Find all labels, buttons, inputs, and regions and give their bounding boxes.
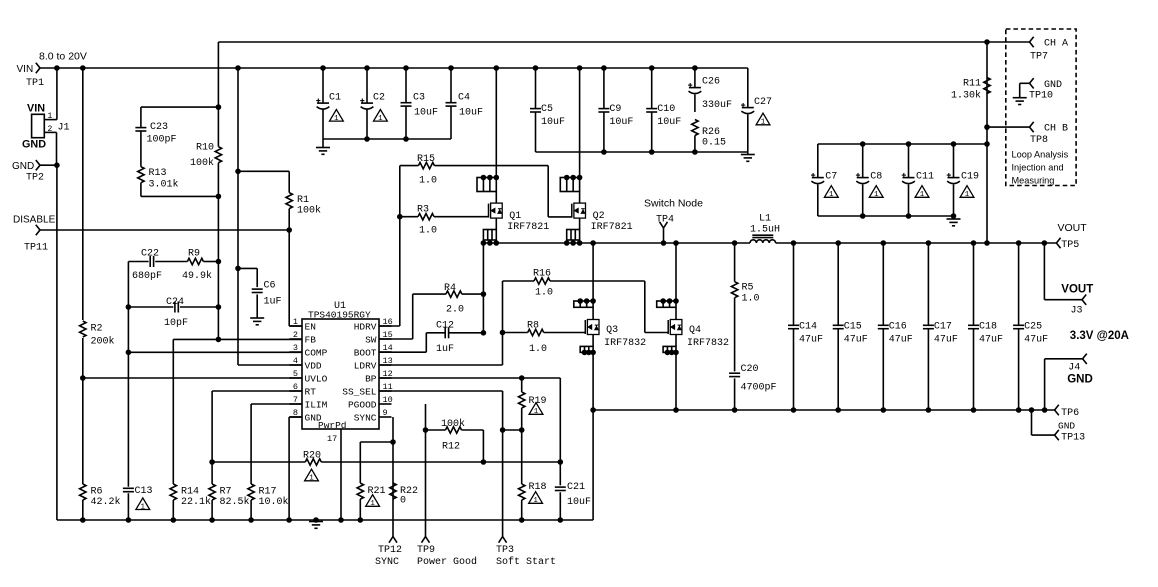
svg-text:100k: 100k	[297, 205, 321, 217]
svg-text:47uF: 47uF	[889, 335, 913, 346]
node VOUT connector J3	[1043, 243, 1045, 300]
wire EN pin 1	[288, 230, 290, 326]
svg-text:0.15: 0.15	[702, 138, 726, 149]
capacitor C16 47uF	[881, 240, 887, 246]
wire R15 to Q2 gate	[547, 166, 549, 217]
junction VIN bus at R2 column	[80, 65, 86, 71]
svg-text:IRF7821: IRF7821	[507, 222, 549, 233]
resistor R8 1.0 (Q3 gate)	[503, 332, 528, 334]
capacitor C3 10uF	[403, 65, 409, 71]
svg-text:PGOOD: PGOOD	[348, 400, 377, 411]
svg-text:R11: R11	[963, 79, 981, 90]
svg-text:Injection and: Injection and	[1012, 163, 1064, 173]
wire R10 bottom to FB node	[217, 196, 219, 339]
wire J1 pin2 to ground rail	[56, 132, 58, 165]
svg-text:1: 1	[370, 500, 375, 508]
svg-text:1: 1	[378, 115, 383, 123]
wire VOUT sense riser	[986, 42, 988, 243]
wire BOOT pin 14	[379, 351, 426, 353]
svg-text:1: 1	[334, 115, 339, 123]
svg-text:TPS40195RGY: TPS40195RGY	[308, 310, 371, 321]
resistor R20 (optional)	[212, 461, 305, 463]
svg-text:Q2: Q2	[593, 211, 605, 222]
node VIN test point TP1	[36, 63, 40, 68]
svg-text:PwrPd: PwrPd	[318, 420, 347, 431]
svg-text:TP1: TP1	[26, 78, 44, 89]
pin 12 BP	[379, 377, 392, 379]
inductor L1 1.5uH	[750, 240, 776, 243]
junction VIN bus at VDD column	[235, 65, 241, 71]
svg-text:TP5: TP5	[1061, 240, 1079, 251]
svg-text:C26: C26	[702, 77, 720, 88]
wire comp loop left leg	[127, 262, 129, 308]
svg-text:DISABLE: DISABLE	[13, 215, 56, 226]
svg-text:R7: R7	[220, 486, 232, 497]
wire analog ground bus	[57, 519, 593, 521]
svg-text:4: 4	[293, 356, 298, 366]
wire SYNC pin 9	[392, 417, 394, 537]
pin 1 EN	[289, 325, 302, 327]
ground below C19	[951, 213, 957, 219]
junction R21 tap	[390, 439, 396, 445]
svg-text:C20: C20	[741, 364, 759, 375]
svg-text:9: 9	[383, 408, 388, 418]
svg-text:C6: C6	[264, 281, 276, 292]
svg-text:47uF: 47uF	[1024, 335, 1048, 346]
svg-text:1: 1	[48, 112, 53, 121]
svg-text:5: 5	[293, 369, 298, 379]
wire riser switch node to R4/C12	[482, 243, 484, 333]
capacitor C22 680pF	[128, 261, 148, 263]
resistor R15 1.0 (Q2 gate)	[400, 165, 419, 167]
wire feedback sense column from loop line	[217, 42, 219, 107]
node GND test point TP2	[36, 160, 40, 165]
svg-text:GND: GND	[1044, 80, 1062, 91]
transistor Q3 IRF7832	[590, 240, 596, 246]
svg-text:C15: C15	[844, 322, 862, 333]
svg-text:1.0: 1.0	[742, 294, 760, 305]
svg-text:SS_SEL: SS_SEL	[342, 387, 377, 398]
svg-text:Power Good: Power Good	[417, 556, 477, 568]
capacitor C7 (polarized)	[817, 144, 819, 178]
svg-text:BOOT: BOOT	[354, 348, 377, 359]
svg-text:IRF7821: IRF7821	[591, 222, 633, 233]
wire UVLO sense	[83, 377, 302, 379]
pin 7 ILIM	[289, 403, 302, 405]
svg-text:3.3V @20A: 3.3V @20A	[1070, 330, 1129, 342]
svg-text:200k: 200k	[91, 336, 115, 348]
svg-text:100pF: 100pF	[147, 135, 177, 146]
junction R3 tap on HDRV column	[397, 214, 403, 220]
svg-text:16: 16	[383, 317, 393, 327]
svg-text:C9: C9	[609, 104, 621, 115]
wire COMP node column	[127, 307, 129, 352]
node Power Good test point TP9	[422, 537, 426, 543]
svg-text:Loop Analysis: Loop Analysis	[1012, 150, 1069, 160]
svg-text:C4: C4	[458, 92, 470, 103]
svg-text:22.1k: 22.1k	[181, 496, 211, 508]
svg-text:TP3: TP3	[496, 545, 514, 556]
svg-text:0: 0	[400, 496, 406, 507]
svg-text:Switch Node: Switch Node	[644, 198, 703, 210]
svg-text:3: 3	[293, 343, 298, 353]
ground below C6	[250, 317, 264, 319]
svg-text:1: 1	[874, 191, 879, 199]
svg-text:R26: R26	[702, 127, 720, 138]
svg-text:1.0: 1.0	[419, 176, 437, 187]
svg-text:R8: R8	[527, 320, 539, 331]
svg-text:10uF: 10uF	[541, 117, 565, 128]
svg-text:14: 14	[383, 343, 393, 353]
junction RT node at R20	[209, 459, 215, 465]
svg-text:C22: C22	[141, 248, 159, 259]
resistor R13 3.01k	[138, 167, 144, 183]
svg-text:10: 10	[383, 395, 393, 405]
svg-text:R16: R16	[533, 268, 551, 279]
svg-text:TP6: TP6	[1061, 408, 1079, 419]
node VOUT test point TP5	[1056, 238, 1060, 243]
svg-text:R2: R2	[91, 324, 103, 335]
junction CH A node	[984, 39, 990, 45]
svg-text:VIN: VIN	[27, 103, 45, 115]
resistor R6 42.2k	[82, 378, 84, 484]
capacitor C26 330uF (polarized)	[692, 65, 698, 71]
junction VIN bus at J1 column	[54, 65, 60, 71]
svg-text:R21: R21	[368, 486, 386, 497]
pin 6 RT	[289, 390, 302, 392]
capacitor C23 100pF	[141, 106, 219, 108]
svg-text:15: 15	[383, 330, 393, 340]
capacitor C4 10uF	[448, 65, 454, 71]
svg-text:TP13: TP13	[1061, 433, 1085, 444]
svg-text:1.0: 1.0	[529, 344, 547, 355]
junction Q3 source at ground bus	[590, 407, 596, 413]
transistor Q1 IRF7821	[494, 65, 500, 71]
svg-text:R1: R1	[297, 195, 309, 206]
svg-text:GND: GND	[12, 161, 34, 172]
pin 15 SW	[379, 338, 392, 340]
wire R16 to Q4 gate	[644, 281, 646, 333]
pin 13 LDRV	[379, 364, 392, 366]
svg-text:47uF: 47uF	[979, 335, 1003, 346]
svg-text:TP7: TP7	[1030, 52, 1048, 63]
wire riser analog ground to power ground	[592, 410, 594, 520]
capacitor C19 (polarized)	[953, 144, 955, 178]
svg-text:C14: C14	[799, 322, 817, 333]
svg-text:1: 1	[965, 191, 970, 199]
capacitor C11 (polarized)	[908, 144, 910, 178]
svg-text:R5: R5	[742, 283, 754, 294]
resistor R22 0 (SYNC series)	[390, 483, 396, 499]
svg-text:C3: C3	[413, 92, 425, 103]
capacitor C21 10uF (BP bypass)	[555, 486, 566, 488]
svg-text:1.5uH: 1.5uH	[750, 225, 780, 236]
wire C7 group bottom rail	[818, 215, 954, 217]
svg-text:2: 2	[293, 330, 298, 340]
svg-text:Measuring: Measuring	[1012, 176, 1055, 186]
wire switch node bus	[483, 242, 750, 244]
wire HDRV pin 16	[301, 325, 303, 327]
capacitor C9 10uF	[601, 65, 607, 71]
junction CH B node	[984, 124, 990, 130]
svg-text:VIN: VIN	[17, 64, 34, 75]
svg-text:1: 1	[920, 191, 925, 199]
svg-text:4700pF: 4700pF	[741, 383, 777, 394]
junction R8 tap	[500, 330, 506, 336]
svg-text:2.0: 2.0	[446, 305, 464, 316]
svg-text:C23: C23	[150, 122, 168, 133]
junction R12 tap	[423, 427, 429, 433]
capacitor C6 1uF (VDD bypass)	[238, 267, 257, 269]
svg-text:100k: 100k	[190, 157, 214, 169]
svg-text:J3: J3	[1071, 306, 1083, 317]
op-amp U1 TPS40195RGY controller	[302, 319, 379, 429]
capacitor C20 4700pF (snubber)	[729, 372, 740, 374]
resistor R17 10.0k (ILIM set)	[250, 404, 252, 484]
svg-text:J1: J1	[58, 123, 70, 134]
svg-text:VDD: VDD	[305, 361, 322, 372]
resistor R11 1.30k (loop injection)	[984, 78, 990, 94]
loop analysis dashed box	[1006, 29, 1076, 186]
svg-text:L1: L1	[759, 214, 771, 225]
svg-text:1.0: 1.0	[535, 288, 553, 299]
svg-text:1: 1	[533, 497, 538, 505]
wire RT pin 6	[212, 390, 302, 392]
svg-text:Q4: Q4	[689, 325, 701, 336]
svg-text:GND: GND	[1067, 374, 1093, 386]
wire input caps ground rail	[323, 138, 451, 140]
wire R20 line to BP node	[483, 461, 560, 463]
capacitor C17 47uF	[926, 240, 932, 246]
wire COMP pin 3	[128, 351, 302, 353]
node GND test point TP10	[1030, 78, 1034, 83]
svg-text:47uF: 47uF	[799, 335, 823, 346]
resistor R26 0.15	[692, 120, 698, 136]
capacitor C8 (polarized)	[862, 144, 864, 178]
svg-text:TP4: TP4	[656, 215, 674, 226]
svg-text:J4: J4	[1068, 363, 1080, 374]
wire VOUT bus	[776, 242, 1057, 244]
svg-text:FB: FB	[305, 335, 317, 346]
svg-text:R4: R4	[444, 283, 456, 294]
junction R19 top at BP	[519, 375, 525, 381]
capacitor C14 47uF	[791, 240, 797, 246]
wire R1 tap from VIN column	[238, 170, 289, 172]
transistor Q4 IRF7832	[673, 240, 679, 246]
junction Q4 source at ground bus	[673, 407, 679, 413]
svg-text:TP11: TP11	[24, 243, 48, 254]
junction J4 at ground bus	[1042, 407, 1048, 413]
pin 11 SS_SEL	[379, 390, 392, 392]
node TP13 ground test point	[1029, 407, 1035, 413]
svg-text:C13: C13	[135, 486, 153, 497]
svg-text:1: 1	[829, 191, 834, 199]
capacitor C13 (COMP to GND)	[127, 352, 129, 487]
svg-text:SW: SW	[365, 335, 377, 346]
capacitor C15 47uF	[835, 240, 841, 246]
junction C24 left	[126, 304, 132, 310]
junction R10 bottom	[216, 194, 222, 200]
svg-text:10uF: 10uF	[567, 497, 591, 508]
svg-text:1: 1	[761, 119, 766, 127]
wire GND pin 8	[289, 416, 302, 418]
svg-text:C12: C12	[436, 320, 454, 331]
junction J3 drop	[1042, 240, 1048, 246]
junction R4 to switch node riser	[481, 291, 487, 297]
svg-text:13: 13	[383, 356, 393, 366]
pin 14 BOOT	[379, 351, 392, 353]
junction R12 at BP line	[481, 459, 487, 465]
svg-text:1: 1	[141, 503, 146, 511]
capacitor C12 1uF (boot)	[426, 332, 445, 334]
svg-text:R9: R9	[188, 248, 200, 259]
junction C24 right at FB column	[216, 304, 222, 310]
svg-text:10pF: 10pF	[164, 318, 188, 329]
junction COMP pin wire	[126, 350, 132, 356]
svg-text:330uF: 330uF	[702, 100, 732, 111]
svg-text:100k: 100k	[441, 418, 465, 430]
svg-text:R14: R14	[181, 486, 199, 497]
wire C7 group top rail	[818, 143, 987, 145]
svg-text:SYNC: SYNC	[354, 413, 377, 424]
svg-text:R20: R20	[303, 450, 321, 461]
wire BP to C21 column	[559, 378, 561, 485]
capacitor C10 10uF	[649, 65, 655, 71]
svg-text:UVLO: UVLO	[305, 374, 328, 385]
svg-text:R3: R3	[417, 205, 429, 216]
capacitor C27 (polarized)	[747, 68, 749, 108]
svg-text:GND: GND	[1058, 421, 1075, 432]
pin 5 UVLO	[289, 377, 302, 379]
svg-text:42.2k: 42.2k	[91, 496, 121, 508]
svg-text:TP8: TP8	[1030, 135, 1048, 146]
svg-text:1uF: 1uF	[264, 297, 282, 308]
resistor R2 200k	[82, 68, 84, 320]
svg-text:1.0: 1.0	[419, 226, 437, 237]
svg-text:C17: C17	[934, 322, 952, 333]
svg-text:C18: C18	[979, 322, 997, 333]
pin 16 HDRV	[379, 325, 392, 327]
svg-text:LDRV: LDRV	[354, 361, 377, 372]
pin 8 GND	[289, 416, 302, 418]
capacitor C5 10uF	[533, 65, 539, 71]
pin 4 VDD	[289, 364, 302, 366]
svg-text:C8: C8	[870, 172, 882, 183]
junction R19 bottom SS_SEL node	[519, 427, 525, 433]
node CH A test point TP7	[987, 41, 1030, 43]
svg-text:BP: BP	[365, 374, 377, 385]
svg-text:680pF: 680pF	[132, 271, 162, 282]
svg-text:R15: R15	[417, 154, 435, 165]
svg-text:1: 1	[293, 317, 298, 327]
wire VDD pin 4	[238, 364, 302, 366]
resistor R5 1.0 (snubber)	[732, 240, 738, 246]
ground below C27	[747, 152, 749, 155]
wire SW pin 15	[379, 338, 413, 340]
svg-text:C24: C24	[166, 297, 184, 308]
svg-text:1: 1	[534, 408, 539, 416]
connector J1	[32, 114, 45, 137]
svg-text:1: 1	[309, 475, 314, 483]
ground symbol on bus	[313, 517, 319, 523]
svg-text:HDRV: HDRV	[354, 322, 377, 333]
wire power ground bus (output)	[593, 409, 1055, 411]
resistor R9 49.9k	[187, 258, 203, 264]
resistor R4 2.0	[413, 293, 446, 295]
wire VIN bus 8.0-20V	[40, 67, 748, 69]
svg-text:VOUT: VOUT	[1058, 222, 1088, 234]
pin 10 PGOOD	[379, 403, 392, 405]
svg-text:2: 2	[48, 125, 53, 134]
svg-text:17: 17	[327, 434, 337, 444]
svg-text:Q1: Q1	[509, 211, 521, 222]
svg-text:R12: R12	[442, 442, 460, 453]
wire PGOOD pin 10	[425, 404, 427, 537]
node TP6 ground test point	[1055, 405, 1059, 410]
capacitor C2 (polarized)	[364, 65, 370, 71]
junction BP column at R20 line	[558, 459, 564, 465]
svg-text:3.01k: 3.01k	[149, 179, 179, 191]
svg-text:1.30k: 1.30k	[951, 90, 981, 102]
wire BP pin 12	[379, 377, 560, 379]
junction C12 right	[481, 330, 487, 336]
svg-text:COMP: COMP	[305, 348, 328, 359]
resistor R21 (SYNC pulldown)	[360, 441, 393, 443]
resistor R18 (SS_SEL divider lower)	[521, 430, 523, 484]
svg-text:Soft Start: Soft Start	[496, 556, 556, 568]
svg-text:R6: R6	[91, 486, 103, 497]
capacitor C18 47uF	[971, 240, 977, 246]
capacitor C24 10pF	[128, 306, 173, 308]
wire top loop-injection line (CH A to feedback column)	[218, 41, 987, 43]
wire SS_SEL pin 11	[379, 390, 503, 392]
svg-text:CH A: CH A	[1044, 39, 1068, 50]
node GND connector J4	[1044, 359, 1046, 410]
junction R2/R6 UVLO tap	[80, 375, 86, 381]
resistor R10 100k	[217, 107, 219, 147]
svg-text:TP10: TP10	[1029, 91, 1053, 102]
resistor R19 (SS_SEL divider upper)	[521, 378, 523, 392]
svg-text:TP9: TP9	[417, 545, 435, 556]
resistor R12 100k (PGOOD pullup)	[426, 429, 446, 431]
junction R9 at FB column	[216, 259, 222, 265]
wire DISABLE to EN	[40, 229, 289, 231]
wire LDRV pin 13	[379, 364, 503, 366]
resistor R14 22.1k (FB to GND)	[172, 339, 174, 484]
svg-text:10uF: 10uF	[609, 117, 633, 128]
svg-text:49.9k: 49.9k	[182, 270, 212, 282]
svg-text:8.0 to 20V: 8.0 to 20V	[39, 51, 87, 63]
svg-text:C19: C19	[961, 172, 979, 183]
svg-text:47uF: 47uF	[934, 335, 958, 346]
svg-text:IRF7832: IRF7832	[604, 338, 646, 349]
svg-text:R10: R10	[196, 143, 214, 154]
svg-text:C7: C7	[825, 172, 837, 183]
resistor R1 100k (EN pullup)	[288, 171, 290, 192]
svg-text:CH B: CH B	[1044, 124, 1068, 135]
resistor R16 1.0 (Q4 gate)	[503, 280, 535, 282]
svg-text:TP2: TP2	[26, 173, 44, 184]
capacitor C25 47uF	[1016, 240, 1022, 246]
resistor R7 82.5k (RT set)	[211, 462, 213, 484]
svg-text:C2: C2	[373, 92, 385, 103]
svg-text:TP12: TP12	[378, 545, 402, 556]
svg-text:C25: C25	[1024, 322, 1042, 333]
svg-text:GND: GND	[22, 139, 46, 151]
wire VDD column from VIN bus	[237, 68, 239, 365]
svg-text:10uF: 10uF	[459, 108, 483, 119]
svg-text:Q3: Q3	[606, 325, 618, 336]
